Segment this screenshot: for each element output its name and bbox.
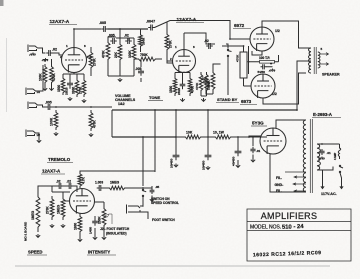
wire pot arrow — [104, 214, 112, 224]
label tube V2 12AX7-A — [176, 17, 204, 23]
svg-text:25/25: 25/25 — [177, 87, 181, 95]
svg-text:5: 5 — [321, 47, 323, 51]
transformer T2 core — [310, 119, 312, 193]
wire C9 to S1 — [206, 44, 228, 49]
label INTENSITY — [87, 250, 116, 256]
ground C11 — [174, 164, 178, 167]
resistor R20 100ohm box — [252, 61, 279, 64]
svg-text:25/25: 25/25 — [65, 87, 69, 95]
ground R22 — [36, 234, 40, 237]
svg-text:4.7K: 4.7K — [82, 176, 86, 184]
transformer T1 primary — [309, 48, 312, 73]
ground R7 — [89, 133, 93, 136]
capacitor C21 — [150, 185, 160, 194]
wire jack J1 to C1 — [38, 48, 46, 53]
label SPEED — [27, 250, 47, 256]
svg-text:1/450: 1/450 — [89, 226, 93, 234]
wire screen net — [248, 46, 279, 74]
svg-text:40/450: 40/450 — [232, 156, 236, 166]
wire OT secondary arrows — [320, 53, 329, 66]
capacitor C1 .02 — [46, 48, 57, 57]
ground C21 — [150, 198, 154, 201]
svg-text:.02: .02 — [204, 39, 209, 43]
wire V3 plate — [80, 110, 155, 172]
resistor R15b 470K — [195, 72, 203, 93]
svg-text:J2 - FOOT SWITCH: J2 - FOOT SWITCH — [100, 227, 130, 231]
svg-text:FIL.: FIL. — [276, 189, 282, 193]
svg-text:1MEG: 1MEG — [31, 210, 35, 220]
label MC-1 BOARD — [24, 221, 28, 241]
ground C1 — [42, 58, 48, 61]
wire second network top — [108, 37, 134, 42]
capacitor C14 — [250, 147, 260, 154]
wire bus y110 — [112, 109, 297, 111]
capacitor C10 — [201, 77, 209, 86]
wire R16 net — [206, 64, 221, 94]
ground C19 — [93, 236, 97, 239]
resistor R9 22K — [114, 42, 122, 62]
wire T2 primary bottom — [317, 167, 333, 171]
wire cathode bus V1 — [63, 73, 84, 81]
wire C14 net — [252, 136, 254, 158]
svg-text:1500: 1500 — [169, 86, 173, 93]
svg-text:FIL.: FIL. — [276, 176, 282, 180]
jack J3 input — [28, 102, 38, 110]
label INSULATED — [106, 232, 127, 236]
wire C13 net — [237, 137, 239, 164]
resistor R16 470K — [207, 70, 215, 92]
svg-text:100K: 100K — [39, 73, 43, 81]
label E-2693-A — [312, 112, 341, 118]
ground R25 — [78, 238, 82, 241]
node bus junction — [119, 28, 121, 30]
label tube V6 5Y3G — [251, 121, 267, 127]
svg-text:20/450: 20/450 — [170, 158, 174, 168]
label GND — [275, 183, 284, 187]
label 100 T.P. — [259, 56, 270, 60]
wire J3 to C3 — [37, 105, 47, 107]
svg-text:(INSULATED): (INSULATED) — [106, 232, 127, 236]
resistor R8 470K — [102, 40, 110, 62]
wire V6 plate top — [276, 120, 306, 129]
pin 7 V1 — [87, 55, 89, 59]
label FOOT SWITCH r — [152, 218, 175, 222]
svg-text:100K: 100K — [128, 50, 132, 58]
volume pot wires — [108, 62, 134, 76]
ground R24 — [61, 224, 65, 227]
wire S3 down — [142, 197, 144, 207]
wire V4 grid — [249, 38, 252, 40]
capacitor C6 .005 — [108, 34, 117, 45]
svg-text:750K: 750K — [140, 53, 148, 57]
resistor R25 1800 cathode — [74, 214, 82, 234]
label FIL top — [276, 176, 282, 180]
svg-text:.02: .02 — [52, 48, 57, 52]
svg-text:22K: 22K — [114, 51, 118, 58]
capacitor C4 .005 bus — [99, 21, 108, 32]
wire V2 plate to coupling — [184, 33, 215, 44]
wire J2 — [35, 65, 43, 91]
wire V1 plate to top bus — [74, 29, 101, 48]
resistor R22 1MEG — [31, 192, 40, 232]
svg-text:12AX7-A: 12AX7-A — [177, 17, 197, 23]
label TREMOLO — [47, 157, 73, 163]
title 510-24 — [282, 224, 305, 231]
wire fil arrow bottom — [285, 172, 306, 192]
wire J4 — [35, 133, 40, 139]
svg-text:FOOT SWITCH: FOOT SWITCH — [152, 218, 175, 222]
jack J4 input — [26, 130, 41, 138]
ground R23 — [50, 224, 54, 227]
resistor R2 1500 cathode — [57, 76, 65, 95]
svg-text:6973: 6973 — [241, 99, 252, 104]
wire box net — [243, 45, 245, 86]
wire OT centertap B+ — [296, 61, 311, 111]
svg-text:TONE: TONE — [149, 95, 160, 100]
svg-text:3300: 3300 — [72, 87, 76, 94]
wire trem bottom net — [80, 202, 104, 238]
svg-text:20/450: 20/450 — [202, 160, 206, 170]
capacitor C2 25/25 — [65, 79, 74, 95]
label SPEAKER — [322, 73, 340, 77]
tube V3 tremolo triode — [70, 189, 95, 214]
svg-text:STAND BY: STAND BY — [217, 97, 238, 102]
wire tone branch — [134, 59, 162, 82]
svg-text:12AX7-A: 12AX7-A — [42, 169, 61, 174]
wire trem caps — [52, 186, 77, 192]
capacitor C20 .003 — [95, 181, 103, 192]
switch S3 speed — [142, 189, 146, 196]
svg-text:100K: 100K — [50, 117, 54, 126]
ground J4 — [37, 139, 41, 142]
svg-text:.0047: .0047 — [146, 20, 155, 24]
svg-text:+: + — [270, 62, 272, 66]
resistor R12 270K — [165, 32, 172, 52]
tube V2 triode — [173, 50, 196, 73]
wire bus y138 — [112, 136, 176, 138]
wire C3 right — [52, 106, 113, 108]
svg-text:.01: .01 — [256, 149, 261, 153]
svg-text:1/2: 1/2 — [275, 29, 280, 33]
capacitor C16 line — [319, 149, 331, 155]
ground R1 — [43, 59, 54, 90]
label STAND BY — [216, 97, 239, 103]
svg-text:270K: 270K — [93, 58, 97, 66]
capacitor C9 coupling — [204, 39, 213, 49]
wire line arrows — [321, 184, 343, 189]
svg-text:270K: 270K — [46, 206, 50, 214]
title block frame — [247, 209, 351, 261]
wire C5bus to box — [222, 45, 244, 47]
svg-text:4700: 4700 — [191, 86, 195, 93]
svg-text:TREMOLO: TREMOLO — [48, 157, 71, 162]
wire top bus — [108, 28, 149, 30]
svg-text:1800: 1800 — [74, 223, 78, 230]
wire V4 plate to OT — [262, 21, 306, 48]
wire R12 — [167, 22, 173, 64]
svg-text:1MEG: 1MEG — [57, 204, 61, 214]
wire C1 to V1 grid — [53, 53, 63, 55]
capacitor C22 25/25 — [177, 81, 185, 95]
wire R5 — [87, 47, 92, 76]
wire V2 plate — [183, 33, 185, 50]
svg-text:INTENSITY: INTENSITY — [88, 250, 110, 255]
resistor R15 4700 — [188, 76, 194, 96]
resistor R3 3300 — [72, 78, 79, 97]
pin 6 V1 — [84, 44, 86, 48]
ground R6 — [54, 132, 58, 135]
wire bus x112 — [111, 110, 113, 137]
svg-text:10K: 10K — [186, 131, 193, 135]
resistor R11b 100K — [139, 33, 146, 48]
resistor R5 270K — [89, 50, 96, 70]
resistor R21 470K plate — [78, 172, 85, 188]
tube V6 5Y3G rectifier — [260, 128, 286, 154]
resistor R19 10 1W — [213, 131, 233, 139]
title divider 2 — [247, 230, 351, 232]
svg-text:.01: .01 — [327, 151, 332, 155]
title MODEL NOS — [250, 225, 281, 231]
jack J5 foot switch — [127, 205, 141, 214]
ground volume — [118, 78, 122, 81]
capacitor C8 .005 tone — [135, 67, 144, 76]
svg-text:SPEED CONTROL: SPEED CONTROL — [151, 201, 179, 205]
wire trem out — [103, 187, 144, 189]
wire chain to rectifier — [253, 136, 267, 138]
svg-text:E-2693-A: E-2693-A — [313, 112, 333, 117]
wire C5 to output grid — [155, 21, 251, 40]
svg-text:4 AMP: 4 AMP — [334, 152, 337, 160]
capacitor C12 20/450 — [202, 152, 212, 170]
resistor R24 1MEG — [57, 196, 65, 220]
svg-text:54/50: 54/50 — [258, 70, 266, 74]
wire R22 top — [38, 186, 52, 192]
wire box to V5 grid — [244, 85, 252, 87]
resistor R1b 470K — [50, 64, 56, 85]
svg-text:10, 1W: 10, 1W — [213, 131, 225, 135]
capacitor C18 .02 — [67, 180, 74, 190]
switch S2 line — [339, 165, 343, 172]
title AMPLIFIERS — [261, 211, 318, 221]
svg-text:1.003: 1.003 — [95, 181, 103, 185]
svg-text:.02: .02 — [201, 77, 206, 81]
resistor R10 100K — [128, 42, 136, 62]
capacitor C7 .02 — [124, 34, 132, 45]
ground C12 — [206, 166, 210, 169]
wire V5 grid — [244, 85, 252, 87]
scan edge left — [0, 0, 7, 112]
wire V4 cathode — [252, 51, 262, 55]
svg-text:470K: 470K — [102, 50, 106, 58]
tube V1 triode — [62, 48, 87, 73]
svg-text:1&2: 1&2 — [118, 102, 125, 106]
pin 1 V1 — [66, 44, 68, 48]
svg-text:.05: .05 — [155, 185, 160, 189]
tube V5 6973 output — [251, 74, 275, 98]
label tube V5 6973 — [240, 99, 257, 105]
wire trem grid — [52, 192, 70, 201]
tube V4 6972 output — [250, 27, 274, 51]
capacitor C17 .02 — [56, 180, 63, 190]
label tube V3 12AX7-A — [41, 169, 65, 175]
svg-text:470K: 470K — [93, 120, 97, 128]
svg-text:.005: .005 — [99, 21, 106, 25]
label tube V4 6972 — [233, 23, 251, 29]
svg-text:SPEAKER: SPEAKER — [322, 73, 340, 77]
ground R26 — [102, 236, 106, 239]
svg-text:270K: 270K — [169, 40, 173, 48]
svg-text:.02: .02 — [56, 180, 61, 184]
scan shadow bottom — [15, 265, 330, 267]
resistor R6 100K — [50, 110, 58, 130]
resistor R27 1MEG — [107, 181, 127, 190]
wire V2 cathode bus — [175, 72, 207, 97]
transformer T2 HV winding — [303, 120, 306, 192]
label 117V.AC. — [321, 192, 337, 196]
wire V5 plate to OT — [263, 73, 306, 104]
label TONE — [148, 95, 163, 101]
ground C14 — [251, 159, 255, 162]
ground V2 cathode — [180, 98, 205, 101]
wire OT top — [306, 47, 311, 49]
label 5ohm — [321, 47, 323, 51]
label VOLUME CHANNELS — [115, 94, 136, 106]
ground C13 — [236, 164, 240, 167]
wire B+ chain — [175, 110, 253, 152]
svg-text:470K: 470K — [236, 54, 240, 62]
capacitor C3 .005 — [45, 101, 52, 111]
resistor R11 750K tone — [136, 53, 158, 61]
pin labels V2 — [170, 45, 195, 61]
svg-text:MC-1 BOARD: MC-1 BOARD — [24, 221, 28, 241]
svg-text:117V.AC.: 117V.AC. — [321, 192, 337, 196]
label FIL bottom — [276, 189, 282, 193]
resistor R17 1M box — [236, 52, 248, 78]
capacitor C11 20/450 — [170, 152, 180, 168]
resistor R18 10K — [183, 131, 203, 139]
transformer T1 secondary — [318, 52, 320, 68]
jack J2 input — [26, 88, 41, 96]
svg-text:100 T.P.: 100 T.P. — [259, 56, 270, 60]
resistor R1 100K — [39, 64, 47, 85]
ground V1 cathode — [68, 97, 86, 102]
wire V6 plates to HV — [270, 154, 306, 193]
label 1/2 V4 — [275, 29, 280, 33]
wire S3 net — [143, 186, 152, 199]
svg-text:5Y3G: 5Y3G — [252, 121, 264, 126]
transformer T1 core — [314, 47, 316, 74]
label SPEED CONTROL — [151, 201, 179, 205]
svg-text:1MEG: 1MEG — [110, 181, 120, 185]
svg-text:.005: .005 — [135, 67, 142, 71]
ground jack J1 — [29, 53, 35, 56]
svg-text:12AX7-A: 12AX7-A — [50, 19, 70, 25]
transformer T2 primary — [317, 144, 320, 170]
svg-text:250K: 250K — [98, 216, 102, 224]
svg-text:510 - 24: 510 - 24 — [282, 224, 305, 231]
svg-text:470K: 470K — [52, 73, 56, 81]
svg-text:.005: .005 — [45, 101, 52, 105]
svg-text:GND-: GND- — [275, 183, 284, 187]
wire x208 to chain — [207, 133, 209, 152]
jack J1 input — [28, 45, 38, 53]
wire bus x208 — [207, 110, 209, 133]
title divider 1 — [247, 221, 351, 223]
label 1/2 V5 — [272, 92, 277, 96]
svg-text:.02: .02 — [124, 34, 129, 38]
fuse F1 — [334, 144, 341, 160]
wire S1 down — [227, 57, 229, 95]
wire bus x155 tremolo — [154, 110, 156, 172]
capacitor C5 .0047 — [146, 20, 155, 31]
wire bus x143 drop — [142, 136, 144, 186]
resistor R13 1500 cathode — [169, 76, 177, 96]
svg-text:470K: 470K — [195, 82, 199, 90]
resistor R4 2700 — [79, 78, 86, 97]
capacitor C13 40/450 — [232, 148, 242, 166]
label tube V1 12AX7-A — [49, 19, 77, 25]
svg-text:2700: 2700 — [79, 87, 83, 94]
svg-text:100K: 100K — [142, 37, 146, 45]
wire bus drop to R8 — [119, 29, 121, 39]
switch S1 standby — [227, 49, 231, 56]
pin 2 V1 — [60, 55, 62, 59]
wire gnd arrow — [293, 183, 306, 185]
resistor R26 intensity pot — [98, 206, 106, 228]
wire V2 grid — [167, 60, 173, 62]
wire V6 to B+ — [248, 136, 261, 138]
svg-text:1500: 1500 — [57, 85, 61, 92]
svg-text:6972: 6972 — [234, 23, 245, 28]
svg-text:MODEL NOS.: MODEL NOS. — [250, 225, 281, 231]
capacitor C19 speed — [89, 218, 98, 234]
wire footswitch — [140, 206, 148, 219]
capacitor C15 50/50 — [258, 62, 276, 74]
label J2 FOOT SWITCH — [100, 227, 130, 231]
resistor R7 470K — [89, 110, 96, 131]
wire T2 primary top — [317, 143, 333, 145]
wire line right — [318, 170, 342, 185]
resistor R23 270K — [46, 196, 54, 220]
label SWITCH ON — [151, 197, 170, 201]
wire R11b leads — [140, 29, 142, 53]
svg-text:SPEED: SPEED — [28, 250, 42, 255]
svg-text:AMPLIFIERS: AMPLIFIERS — [261, 211, 318, 221]
svg-text:1/2: 1/2 — [272, 92, 277, 96]
title handwritten row — [253, 250, 322, 258]
wire fil arrow top — [294, 176, 306, 178]
svg-text:.02: .02 — [67, 180, 72, 184]
node V1 plate — [73, 28, 75, 30]
resistor R15c 270K — [205, 72, 211, 93]
wire line cap — [318, 143, 340, 160]
